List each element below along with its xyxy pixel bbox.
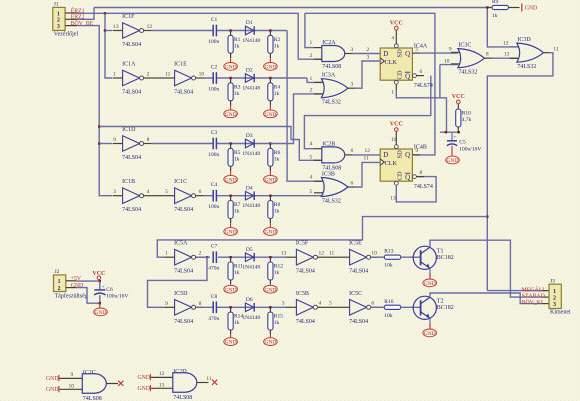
svg-text:GND: GND bbox=[225, 65, 237, 71]
svg-text:SD: SD bbox=[397, 49, 404, 58]
svg-text:100u/16V: 100u/16V bbox=[106, 294, 128, 300]
ground bbox=[264, 285, 278, 293]
svg-text:CLK: CLK bbox=[385, 59, 398, 66]
wire ERZ1 branch down to IC1F/IC1A bbox=[105, 13, 112, 78]
node BOV_BE junction IC1D bbox=[98, 125, 100, 127]
wire J2 pin1 to VCC node bbox=[66, 280, 76, 282]
svg-text:D3: D3 bbox=[246, 133, 253, 139]
svg-text:100n: 100n bbox=[208, 39, 219, 45]
svg-text:IC5A: IC5A bbox=[174, 241, 188, 247]
svg-text:C6: C6 bbox=[106, 287, 113, 293]
wire feedback IC4B Q to IC2A input 1 bbox=[305, 13, 435, 155]
transistor T1 bbox=[413, 246, 454, 269]
svg-text:3: 3 bbox=[351, 82, 354, 88]
wire IC5F to IC5E bbox=[325, 256, 339, 258]
svg-text:1k: 1k bbox=[274, 156, 280, 162]
svg-text:1: 1 bbox=[165, 251, 168, 257]
svg-text:IC1D: IC1D bbox=[122, 127, 136, 133]
svg-text:IC5B: IC5B bbox=[296, 291, 309, 297]
svg-text:13: 13 bbox=[159, 382, 165, 388]
svg-text:2: 2 bbox=[57, 18, 60, 24]
svg-text:3: 3 bbox=[351, 47, 354, 53]
svg-text:470n: 470n bbox=[208, 316, 219, 322]
svg-text:3: 3 bbox=[553, 302, 556, 308]
svg-text:GND: GND bbox=[46, 376, 59, 382]
wire IC3A out to IC4A CLK bbox=[348, 87, 355, 89]
svg-text:J3: J3 bbox=[550, 278, 555, 284]
svg-text:Q: Q bbox=[405, 173, 410, 181]
svg-text:GND: GND bbox=[447, 158, 459, 164]
inverter IC1C bbox=[165, 179, 204, 213]
wire IC1C output row to IC3B input 5 bbox=[204, 195, 322, 197]
svg-text:2: 2 bbox=[147, 72, 150, 78]
svg-text:74LS32: 74LS32 bbox=[458, 70, 477, 76]
capacitor C8 bbox=[208, 294, 219, 322]
svg-text:GND: GND bbox=[225, 112, 237, 118]
wire IC3D net to IC5A input bbox=[157, 217, 487, 258]
svg-text:CLK: CLK bbox=[385, 160, 398, 167]
IC4B CD bubble bbox=[394, 181, 398, 185]
wire IC1E net to IC3A input 1 bbox=[307, 78, 322, 82]
svg-text:74LS74: 74LS74 bbox=[414, 184, 433, 190]
svg-text:74LS04: 74LS04 bbox=[174, 319, 193, 325]
svg-text:74LS32: 74LS32 bbox=[517, 64, 536, 70]
svg-text:R2: R2 bbox=[274, 37, 281, 43]
ground bbox=[446, 156, 460, 164]
inverter IC5A bbox=[165, 241, 204, 275]
svg-text:4,7k: 4,7k bbox=[462, 117, 472, 123]
svg-text:5: 5 bbox=[165, 189, 168, 195]
svg-text:1k: 1k bbox=[234, 156, 240, 162]
wire J1 pin1 ERZ1 bbox=[65, 12, 77, 14]
svg-text:R16: R16 bbox=[384, 299, 393, 305]
svg-text:D4: D4 bbox=[246, 185, 253, 191]
svg-text:C1: C1 bbox=[211, 17, 218, 23]
inverter IC1D bbox=[113, 127, 152, 161]
resistor R15 bbox=[268, 312, 283, 330]
svg-text:GND: GND bbox=[264, 287, 276, 293]
svg-text:10k: 10k bbox=[384, 313, 393, 319]
svg-text:D5: D5 bbox=[246, 247, 253, 253]
capacitor C5 bbox=[447, 132, 482, 152]
resistor R5 bbox=[228, 148, 241, 166]
svg-text:9: 9 bbox=[113, 137, 116, 143]
resistor R16 bbox=[384, 299, 401, 319]
svg-text:1k: 1k bbox=[274, 270, 280, 276]
D flip-flop body bbox=[380, 149, 412, 181]
svg-text:IC3B: IC3B bbox=[322, 172, 335, 178]
svg-text:3: 3 bbox=[57, 24, 60, 30]
svg-text:GND: GND bbox=[424, 331, 436, 337]
ground right of R9 bbox=[521, 4, 523, 12]
IC4A Q to IC3C input 9 bbox=[412, 52, 420, 54]
svg-text:1k: 1k bbox=[274, 209, 280, 215]
OR gate IC3A bbox=[321, 73, 348, 106]
svg-text:IC5F: IC5F bbox=[296, 241, 309, 247]
svg-text:8: 8 bbox=[420, 170, 423, 176]
wire IC4A CD to reset net bbox=[395, 84, 397, 90]
svg-text:1: 1 bbox=[58, 279, 61, 285]
IC4B notQ bubble bbox=[413, 175, 417, 179]
wire IC1E output row bbox=[204, 77, 308, 79]
svg-text:10: 10 bbox=[69, 383, 75, 389]
svg-text:BÖV_KI: BÖV_KI bbox=[522, 299, 543, 306]
svg-text:1N4148: 1N4148 bbox=[242, 151, 260, 157]
inverter IC5B bbox=[286, 291, 325, 325]
svg-text:R4: R4 bbox=[274, 84, 281, 90]
svg-text:1N4148: 1N4148 bbox=[242, 265, 260, 271]
wire J1 pin2 up to top rail bbox=[65, 18, 77, 20]
svg-text:4: 4 bbox=[310, 175, 313, 181]
svg-text:100u/16V: 100u/16V bbox=[459, 147, 481, 153]
svg-text:IC5C: IC5C bbox=[349, 291, 362, 297]
svg-text:4: 4 bbox=[310, 141, 313, 147]
svg-text:74LS08: 74LS08 bbox=[83, 396, 102, 401]
svg-text:1: 1 bbox=[553, 289, 556, 295]
svg-text:74LS04: 74LS04 bbox=[296, 319, 315, 325]
svg-text:Q: Q bbox=[405, 50, 410, 58]
svg-text:12: 12 bbox=[319, 251, 325, 257]
VCC bbox=[92, 271, 105, 279]
svg-text:IC1F: IC1F bbox=[122, 14, 135, 20]
D flip-flop body bbox=[380, 48, 412, 80]
inverter IC1E bbox=[165, 62, 205, 96]
svg-text:1: 1 bbox=[310, 40, 313, 46]
svg-text:GND: GND bbox=[225, 177, 237, 183]
wire J1 pin3 BOV_BE bbox=[65, 25, 77, 27]
T1 emitter to ground bbox=[429, 268, 431, 276]
svg-text:+: + bbox=[102, 284, 105, 290]
svg-text:8: 8 bbox=[147, 137, 150, 143]
svg-text:3: 3 bbox=[282, 301, 285, 307]
ground bbox=[264, 175, 278, 183]
inverter IC1B bbox=[113, 179, 152, 213]
ground bbox=[224, 110, 238, 118]
svg-text:13: 13 bbox=[113, 24, 119, 30]
svg-text:10: 10 bbox=[391, 137, 397, 143]
ground bbox=[224, 175, 238, 183]
svg-text:9: 9 bbox=[165, 301, 168, 307]
svg-text:100n: 100n bbox=[208, 204, 219, 210]
ground bbox=[94, 308, 108, 316]
AND gate IC2D bbox=[173, 369, 197, 401]
svg-text:BC182: BC182 bbox=[437, 305, 454, 311]
svg-text:74LS04: 74LS04 bbox=[122, 155, 141, 161]
svg-text:R13: R13 bbox=[384, 249, 393, 255]
svg-text:GND: GND bbox=[264, 112, 276, 118]
diode D5 bbox=[242, 247, 260, 271]
capacitor C6 bbox=[94, 284, 128, 299]
node IC5A out bbox=[206, 256, 208, 258]
connector J2 bbox=[54, 269, 88, 300]
svg-text:4: 4 bbox=[391, 36, 394, 42]
svg-text:12: 12 bbox=[365, 148, 371, 154]
ground bbox=[224, 63, 238, 71]
svg-text:IC3D: IC3D bbox=[517, 37, 531, 43]
svg-text:C3: C3 bbox=[211, 130, 218, 136]
T2 collector wire to J3 pin3 bbox=[430, 293, 542, 304]
svg-text:GND: GND bbox=[46, 387, 59, 393]
svg-text:74LS04: 74LS04 bbox=[349, 319, 368, 325]
IC4B Q output to feedback and IC3C input 10 net bbox=[412, 154, 420, 156]
svg-text:6: 6 bbox=[351, 180, 354, 186]
resistor R8 bbox=[268, 201, 281, 219]
svg-text:GND: GND bbox=[95, 310, 107, 316]
VCC bbox=[390, 20, 403, 30]
svg-text:IC1B: IC1B bbox=[122, 179, 135, 185]
svg-text:1N4148: 1N4148 bbox=[242, 38, 260, 44]
resistor R14 bbox=[228, 312, 243, 330]
svg-text:74LS08: 74LS08 bbox=[322, 64, 341, 70]
svg-text:MEGÁLL: MEGÁLL bbox=[522, 285, 547, 293]
svg-text:12: 12 bbox=[159, 371, 165, 377]
wire reset node bbox=[440, 131, 459, 133]
svg-text:R3: R3 bbox=[234, 84, 241, 90]
svg-text:1N4148: 1N4148 bbox=[242, 86, 260, 92]
svg-text:GND: GND bbox=[525, 6, 538, 12]
wire J2 pin2 to C6 bottom bbox=[66, 287, 76, 289]
svg-text:100n: 100n bbox=[208, 87, 219, 93]
svg-text:74LS04: 74LS04 bbox=[349, 269, 368, 275]
capacitor C7 bbox=[208, 244, 219, 272]
svg-text:IC1E: IC1E bbox=[174, 62, 187, 68]
svg-text:74LS74: 74LS74 bbox=[414, 83, 433, 89]
ground bbox=[264, 228, 278, 236]
svg-text:13: 13 bbox=[281, 251, 287, 257]
svg-text:R5: R5 bbox=[234, 150, 241, 156]
T2 emitter to ground bbox=[429, 318, 431, 326]
ground bbox=[423, 329, 437, 337]
svg-text:10: 10 bbox=[444, 58, 450, 64]
capacitor C3 bbox=[208, 130, 219, 158]
svg-text:VCC: VCC bbox=[390, 20, 403, 26]
diode D2 bbox=[242, 68, 260, 92]
OR gate IC3C bbox=[458, 43, 485, 76]
svg-text:74LS08: 74LS08 bbox=[173, 395, 192, 401]
resistor R1 bbox=[228, 35, 241, 53]
wire C6 bottom node bbox=[99, 295, 101, 303]
svg-text:1k: 1k bbox=[234, 209, 240, 215]
svg-text:10: 10 bbox=[371, 251, 377, 257]
VCC bbox=[452, 94, 465, 104]
wire IC5A out row bbox=[197, 256, 210, 258]
wire IC3C out to IC3D in 13 bbox=[484, 57, 492, 59]
svg-text:4: 4 bbox=[319, 301, 322, 307]
svg-text:R1: R1 bbox=[234, 37, 241, 43]
svg-text:SD: SD bbox=[397, 150, 404, 159]
svg-text:1: 1 bbox=[310, 76, 313, 82]
svg-text:470n: 470n bbox=[208, 266, 219, 272]
no-connect X bbox=[212, 380, 217, 385]
svg-text:J1: J1 bbox=[54, 2, 59, 8]
svg-text:6: 6 bbox=[199, 189, 202, 195]
svg-text:74LS04: 74LS04 bbox=[174, 90, 193, 96]
svg-text:GND: GND bbox=[225, 230, 237, 236]
svg-text:J2: J2 bbox=[55, 269, 60, 275]
svg-text:2: 2 bbox=[553, 295, 556, 301]
IC4A CD bubble bbox=[394, 81, 398, 85]
svg-text:GND: GND bbox=[264, 177, 276, 183]
svg-text:1k: 1k bbox=[274, 43, 280, 49]
svg-text:5: 5 bbox=[329, 301, 332, 307]
svg-text:VCC: VCC bbox=[452, 94, 465, 100]
svg-text:74LS04: 74LS04 bbox=[296, 269, 315, 275]
wire BOV_BE to IC1D input bbox=[99, 143, 112, 145]
connector J1 bbox=[53, 2, 79, 38]
wire IC3C input10 from reset node bbox=[439, 65, 441, 98]
wire IC3B out to IC4B CLK bbox=[348, 186, 355, 188]
resistor R13 bbox=[384, 249, 401, 269]
wire IC4A notQ to IC2B input 4 bbox=[304, 76, 430, 149]
svg-text:1k: 1k bbox=[274, 91, 280, 97]
ground bbox=[264, 63, 278, 71]
wire MEGALL to J3 pin1 bbox=[487, 290, 542, 292]
svg-text:11: 11 bbox=[553, 46, 559, 52]
svg-text:11: 11 bbox=[329, 251, 335, 257]
svg-text:GND: GND bbox=[225, 287, 237, 293]
svg-text:5: 5 bbox=[415, 46, 418, 52]
svg-text:C4: C4 bbox=[211, 182, 218, 188]
svg-text:2: 2 bbox=[310, 53, 313, 59]
svg-text:74LS08: 74LS08 bbox=[322, 165, 341, 171]
svg-text:5: 5 bbox=[310, 189, 313, 195]
svg-text:R15: R15 bbox=[274, 314, 283, 320]
svg-text:8: 8 bbox=[486, 51, 489, 57]
svg-text:13: 13 bbox=[390, 195, 396, 201]
OR gate IC3D bbox=[517, 37, 544, 70]
svg-text:D2: D2 bbox=[246, 68, 253, 74]
wire BOV_BE branch to IC2B input 5 bbox=[99, 127, 322, 161]
svg-text:R6: R6 bbox=[274, 150, 281, 156]
svg-text:BC182: BC182 bbox=[437, 255, 454, 261]
svg-text:GND: GND bbox=[264, 65, 276, 71]
svg-text:2: 2 bbox=[199, 251, 202, 257]
svg-text:Q: Q bbox=[405, 151, 410, 159]
svg-text:C2: C2 bbox=[211, 65, 218, 71]
inverter IC1A bbox=[113, 62, 152, 96]
AND gate IC2B bbox=[322, 141, 345, 171]
resistor R12 bbox=[268, 262, 283, 280]
svg-text:1: 1 bbox=[391, 90, 394, 96]
inverter IC5F bbox=[286, 241, 325, 275]
svg-text:13: 13 bbox=[504, 51, 510, 57]
svg-text:IC1C: IC1C bbox=[174, 179, 187, 185]
svg-text:Vezérlőjel: Vezérlőjel bbox=[54, 31, 79, 37]
ground bbox=[224, 228, 238, 236]
svg-text:+: + bbox=[453, 135, 456, 141]
svg-text:R8: R8 bbox=[274, 202, 281, 208]
wire IC1F output row bbox=[152, 30, 288, 32]
svg-text:9: 9 bbox=[449, 46, 452, 52]
svg-text:2: 2 bbox=[310, 87, 313, 93]
svg-text:12: 12 bbox=[503, 40, 509, 46]
svg-text:T2: T2 bbox=[437, 299, 444, 305]
wire IC3D output loop down bbox=[543, 52, 549, 54]
wire R13 to T1 base bbox=[401, 256, 420, 258]
wire IC1F net down to IC3B input 4 bbox=[287, 31, 322, 182]
diode D4 bbox=[242, 185, 260, 209]
svg-text:R10: R10 bbox=[462, 111, 471, 117]
wire ERZ1 rail to IC2A input 2 bbox=[105, 13, 322, 59]
svg-text:1k: 1k bbox=[274, 320, 280, 326]
node main vertical junction bbox=[486, 215, 488, 217]
wire IC1D net up to IC3A input 2 bbox=[270, 94, 321, 144]
capacitor C4 bbox=[208, 182, 219, 210]
wire IC2A out to IC4A D bbox=[345, 53, 352, 55]
AND gate IC2A bbox=[322, 40, 345, 70]
connector J3 bbox=[549, 278, 571, 315]
svg-text:IC3C: IC3C bbox=[458, 43, 471, 49]
svg-text:SZABAD: SZABAD bbox=[522, 294, 545, 300]
capacitor C2 bbox=[208, 65, 219, 93]
svg-text:5: 5 bbox=[310, 154, 313, 160]
resistor R11 bbox=[228, 262, 243, 280]
svg-text:GND: GND bbox=[138, 375, 151, 381]
svg-text:1: 1 bbox=[57, 11, 60, 17]
IC4A notQ bubble and wire bbox=[413, 74, 417, 78]
svg-text:CD: CD bbox=[397, 70, 404, 79]
svg-text:11: 11 bbox=[206, 376, 212, 382]
svg-text:10k: 10k bbox=[384, 263, 393, 269]
resistor R2 bbox=[268, 35, 281, 53]
svg-text:4: 4 bbox=[147, 189, 150, 195]
svg-text:VCC: VCC bbox=[390, 122, 403, 128]
svg-text:1N4148: 1N4148 bbox=[242, 203, 260, 209]
no-connect X bbox=[118, 381, 123, 386]
ground bbox=[264, 110, 278, 118]
resistor R10 bbox=[456, 109, 472, 127]
svg-text:R12: R12 bbox=[274, 264, 283, 270]
svg-text:1k: 1k bbox=[234, 43, 240, 49]
svg-text:100n: 100n bbox=[208, 152, 219, 158]
svg-text:GND: GND bbox=[424, 281, 436, 287]
svg-text:2: 2 bbox=[58, 286, 61, 292]
svg-text:1k: 1k bbox=[234, 320, 240, 326]
svg-text:6: 6 bbox=[420, 69, 423, 75]
diode D1 bbox=[242, 20, 260, 44]
wire IC1B out to IC1C in bbox=[152, 195, 165, 197]
wire IC4B CD loop from notQ bbox=[396, 177, 436, 202]
svg-text:D6: D6 bbox=[246, 297, 253, 303]
svg-text:74LS04: 74LS04 bbox=[122, 207, 141, 213]
resistor R6 bbox=[268, 148, 281, 166]
wire to IC1F input bbox=[105, 30, 112, 32]
svg-text:Q: Q bbox=[405, 72, 410, 80]
svg-text:6: 6 bbox=[371, 301, 374, 307]
wire IC5D out row bbox=[197, 306, 287, 308]
svg-text:3: 3 bbox=[367, 54, 370, 60]
svg-text:IC5E: IC5E bbox=[349, 241, 362, 247]
svg-text:D: D bbox=[383, 50, 388, 58]
wire IC2B out to IC4B D bbox=[345, 154, 352, 156]
ground bbox=[224, 285, 238, 293]
node ERZ1 junction bbox=[104, 12, 106, 14]
svg-text:IC1A: IC1A bbox=[122, 62, 136, 68]
svg-text:IC2D: IC2D bbox=[173, 369, 187, 375]
svg-text:C8: C8 bbox=[211, 294, 218, 300]
svg-text:R7: R7 bbox=[234, 202, 241, 208]
capacitor C1 bbox=[208, 17, 219, 45]
svg-text:3: 3 bbox=[113, 189, 116, 195]
svg-text:9: 9 bbox=[415, 148, 418, 154]
VCC bbox=[390, 122, 403, 132]
svg-text:1N4148: 1N4148 bbox=[242, 315, 260, 321]
resistor R7 bbox=[228, 201, 241, 219]
inverter IC5C bbox=[340, 291, 379, 325]
svg-text:74LS04: 74LS04 bbox=[174, 207, 193, 213]
svg-text:1k: 1k bbox=[234, 270, 240, 276]
wire IC5B to IC5C bbox=[325, 306, 339, 308]
